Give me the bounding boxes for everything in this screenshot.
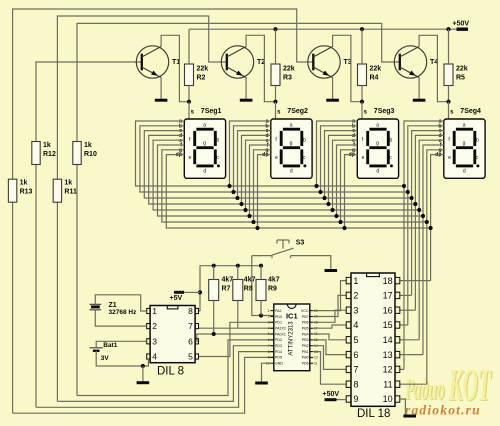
svg-text:PB2: PB2 (302, 344, 309, 348)
wire +50V to DIL18 pin9 (337, 399, 347, 401)
svg-text:Радио: Радио (404, 371, 444, 406)
wire T3 collector loop (333, 35, 362, 101)
resistor R5 22k (444, 64, 453, 86)
resistor R8 4k7 (233, 280, 243, 301)
svg-text:8: 8 (188, 306, 193, 316)
svg-text:PB6: PB6 (302, 321, 309, 325)
svg-text:VCC: VCC (301, 309, 309, 313)
op-amp IC1 ATTINY2313 (266, 304, 318, 371)
svg-text:9: 9 (353, 394, 358, 404)
svg-text:g: g (290, 141, 293, 147)
junction dot collector node T4 (446, 100, 450, 104)
svg-text:4k7: 4k7 (244, 277, 256, 284)
junction dots pullup row R7 R8 R9 (212, 264, 216, 268)
wire T1 base from R12 column (36, 62, 142, 407)
svg-text:3: 3 (268, 321, 270, 325)
svg-text:d: d (290, 169, 293, 175)
wire R7 top lead (213, 266, 215, 280)
IC socket DIL 8 (147, 306, 199, 363)
battery Bat1 3V (90, 348, 103, 351)
junction dot collector node T3 (360, 100, 364, 104)
wire R9 bottom lead (260, 301, 262, 316)
resistor R9 4k7 (256, 280, 266, 301)
svg-text:14: 14 (383, 335, 393, 345)
ground T2 emitter (240, 99, 253, 102)
svg-text:d: d (203, 169, 206, 175)
svg-text:13: 13 (383, 350, 393, 360)
svg-text:3V: 3V (101, 355, 110, 362)
wire Z1 bottom to DIL8 pin2 (95, 310, 146, 326)
svg-text:12: 12 (383, 365, 393, 375)
ground S3 (325, 269, 338, 272)
svg-text:R9: R9 (268, 286, 277, 293)
wire ground drop DIL8 (142, 366, 144, 381)
junction dots segment bus at 7Seg4 (402, 184, 406, 188)
svg-text:PD4: PD4 (275, 350, 282, 354)
svg-text:7: 7 (268, 344, 270, 348)
wire top bus 1 from R13 column to T3 base (13, 9, 314, 413)
svg-text:17: 17 (383, 291, 393, 301)
svg-text:7Seg4: 7Seg4 (460, 108, 481, 115)
svg-text:a: a (376, 123, 379, 129)
transistor T2 (221, 46, 253, 78)
wire display 4 common s (448, 102, 450, 119)
svg-text:PB1: PB1 (302, 350, 309, 354)
svg-text:3: 3 (152, 336, 157, 346)
wire T4 emitter to ground (418, 77, 420, 98)
wire T4 collector loop (419, 35, 448, 101)
wire display 2 common s (275, 102, 277, 119)
resistor R12 1k (32, 142, 40, 165)
svg-text:a: a (290, 123, 293, 129)
svg-text:1: 1 (152, 306, 157, 316)
wire +5V to node (184, 291, 200, 293)
svg-text:6: 6 (268, 338, 270, 342)
wire top bus 2 from R11 column to T2 base (57, 16, 226, 401)
wire DIL8 pin5 to PD1 (199, 322, 274, 356)
svg-text:R2: R2 (197, 75, 206, 82)
wire 7Seg4 segment drops down to DIL18 (404, 121, 444, 369)
svg-text:PB7: PB7 (302, 315, 309, 319)
wire display 3 common s (361, 102, 363, 119)
junction dots segment bus at 7Seg2 (227, 184, 231, 188)
svg-text:5: 5 (188, 352, 193, 362)
svg-text:PA1X2: PA1X2 (275, 327, 286, 331)
ground DIL8 battery (137, 381, 150, 384)
svg-text:22k: 22k (283, 66, 295, 73)
svg-text:PD6: PD6 (302, 362, 309, 366)
svg-text:R8: R8 (244, 286, 253, 293)
svg-text:2: 2 (353, 291, 358, 301)
svg-text:PD0: PD0 (275, 315, 282, 319)
svg-text:9: 9 (268, 356, 270, 360)
resistor R13 1k (8, 179, 16, 202)
svg-text:1: 1 (268, 309, 270, 313)
svg-text:Bat1: Bat1 (103, 342, 117, 349)
svg-text:4: 4 (353, 320, 358, 330)
junction dots segment bus at 7Seg3 (314, 184, 318, 188)
svg-text:PD3: PD3 (275, 344, 282, 348)
IC socket DIL 18 (346, 273, 400, 406)
svg-text:5: 5 (353, 335, 358, 345)
pin labels display 2 (262, 119, 269, 159)
junction dot battery ground node (141, 364, 145, 368)
wire PD2 net from R10 column (77, 340, 274, 396)
svg-text:g: g (203, 141, 206, 147)
svg-text:a: a (203, 123, 206, 129)
svg-text:22k: 22k (197, 66, 209, 73)
svg-text:1k: 1k (43, 142, 51, 149)
svg-text:R4: R4 (370, 75, 379, 82)
wire T1 emitter to ground (160, 77, 162, 98)
svg-text:R3: R3 (283, 75, 292, 82)
wire R9 top lead (260, 266, 262, 280)
wire R7 bottom to PA0X1 and DIL8 pin6 (214, 301, 274, 335)
svg-text:d: d (376, 169, 379, 175)
svg-text:1k: 1k (64, 180, 72, 187)
wire R2 top to +50V rail (188, 29, 190, 64)
transistor T1 (136, 46, 168, 78)
svg-text:+5V: +5V (170, 295, 183, 302)
wire R5 bottom to node (448, 86, 450, 102)
svg-text:PB3: PB3 (302, 338, 309, 342)
transistor T3 (308, 46, 340, 78)
wire +50V rail (189, 28, 458, 30)
wire T2 emitter to ground (245, 77, 247, 98)
resistor R2 22k (185, 64, 194, 86)
wire S3 to PD0 and R9 bottom (252, 256, 274, 316)
power symbol +50V top right (457, 28, 469, 31)
svg-text:15: 15 (383, 320, 393, 330)
svg-text:12: 12 (314, 356, 318, 360)
svg-text:1: 1 (353, 276, 358, 286)
wire Z1 top to DIL8 pin1 (95, 295, 146, 311)
svg-text:+50V: +50V (453, 21, 470, 28)
svg-text:R12: R12 (43, 151, 56, 158)
wire 7Seg2 segment drops (230, 121, 271, 186)
watermark Radio KOT (404, 359, 493, 411)
svg-text:R13: R13 (20, 189, 33, 196)
wire Bat1 minus to DIL8 pin4 and ground (96, 351, 148, 366)
svg-text:7Seg1: 7Seg1 (201, 108, 222, 115)
svg-text:8: 8 (268, 350, 270, 354)
resistor R3 22k (271, 64, 280, 86)
svg-text:S3: S3 (296, 240, 305, 247)
junction dot +5V tap (198, 290, 202, 294)
svg-text:e: e (362, 155, 365, 161)
ground T4 emitter (413, 99, 426, 102)
resistor R7 4k7 (209, 280, 219, 301)
svg-text:R5: R5 (456, 75, 465, 82)
power symbol +50V bottom (325, 398, 337, 401)
svg-text:g: g (376, 141, 379, 147)
wire R3 top to +50V rail (275, 29, 277, 64)
svg-text:IC1: IC1 (286, 311, 298, 320)
wire R4 top to +50V rail (361, 29, 363, 64)
svg-text:11: 11 (383, 379, 392, 389)
wire R2 bottom to node (188, 86, 190, 102)
junction dot R9 bottom PD0 (259, 313, 263, 317)
power symbol +5V (174, 291, 184, 294)
wire R8 top lead (237, 266, 239, 280)
svg-text:7Seg2: 7Seg2 (287, 108, 308, 115)
svg-text:4: 4 (152, 352, 157, 362)
svg-text:1k: 1k (84, 142, 92, 149)
wires IC1 PB pins to DIL18 pins 1-8 (313, 281, 346, 311)
wire T2 collector loop (246, 35, 275, 101)
svg-text:PD5: PD5 (275, 356, 282, 360)
ground IC1 (255, 382, 268, 385)
svg-text:PA2: PA2 (275, 309, 282, 313)
svg-text:R7: R7 (222, 286, 231, 293)
svg-text:3: 3 (353, 305, 358, 315)
junction dot collector node T2 (273, 100, 277, 104)
svg-text:4k7: 4k7 (268, 277, 280, 284)
svg-text:22k: 22k (456, 66, 468, 73)
wire IC1 GND to ground (262, 363, 271, 381)
wire 7Seg1 segment staircase and bus lines (136, 121, 405, 186)
svg-text:+50V: +50V (323, 391, 340, 398)
svg-text:11: 11 (314, 361, 318, 365)
wire PD3 net from R11 column (57, 346, 273, 402)
svg-text:22k: 22k (370, 66, 382, 73)
seven segment display 7Seg3 (357, 119, 398, 178)
svg-text:DIL 18: DIL 18 (357, 408, 390, 420)
svg-text:e: e (275, 155, 278, 161)
svg-text:7Seg3: 7Seg3 (374, 108, 395, 115)
svg-text:2: 2 (268, 315, 270, 319)
svg-text:8: 8 (353, 379, 358, 389)
junction dot collector node T1 (187, 100, 191, 104)
svg-text:32768 Hz: 32768 Hz (109, 309, 138, 316)
junction dots +50V rail at R3 R4 R5 (273, 27, 277, 31)
svg-text:b: b (303, 137, 306, 143)
svg-text:R10: R10 (84, 151, 97, 158)
wire DIL18 pin10 to ground (400, 399, 406, 415)
wire R5 top to +50V rail (448, 29, 450, 64)
svg-text:16: 16 (383, 305, 393, 315)
seven segment display 7Seg2 (271, 119, 312, 178)
wire R8 bottom to PA1X2 and DIL8 pin7 (238, 301, 274, 329)
svg-text:10: 10 (383, 394, 393, 404)
svg-text:d: d (463, 169, 466, 175)
seven segment display 7Seg4 (444, 119, 485, 178)
svg-text:b: b (217, 137, 220, 143)
resistor R10 1k (73, 142, 81, 165)
wire +5V pullup row to DIL8 pin8 (200, 266, 262, 311)
svg-text:e: e (448, 155, 451, 161)
svg-text:b: b (476, 137, 479, 143)
svg-text:1k: 1k (20, 180, 28, 187)
transistor T4 (394, 46, 426, 78)
pin labels display 4 (435, 119, 442, 159)
crystal Z1 32768 Hz (90, 304, 102, 310)
ground T1 emitter (155, 99, 168, 102)
wire PD4 net from R12 column (36, 352, 274, 408)
svg-text:radiokot.ru: radiokot.ru (405, 403, 481, 418)
wire display 1 common s (188, 102, 190, 119)
pin labels display 1 (176, 119, 183, 159)
svg-text:R11: R11 (64, 189, 77, 196)
svg-text:5: 5 (268, 332, 270, 336)
svg-text:a: a (463, 123, 466, 129)
svg-text:b: b (390, 137, 393, 143)
svg-text:PA0X1: PA0X1 (275, 332, 286, 336)
svg-text:7: 7 (353, 365, 358, 375)
svg-text:g: g (463, 141, 466, 147)
wire T1 collector loop (161, 35, 189, 101)
resistor R11 1k (53, 179, 61, 202)
svg-text:7: 7 (188, 321, 193, 331)
svg-text:6: 6 (353, 350, 358, 360)
svg-text:PB4: PB4 (302, 332, 309, 336)
svg-text:ATTINY2313: ATTINY2313 (289, 321, 295, 356)
wire PD5 net from R13 column (13, 357, 274, 413)
pin labels display 3 (349, 119, 356, 159)
wire T3 emitter to ground (332, 77, 334, 98)
wire R4 bottom to node (361, 86, 363, 102)
wire 7Seg3 segment drops (317, 121, 358, 186)
svg-text:e: e (189, 155, 192, 161)
wire R3 bottom to node (275, 86, 277, 102)
wire top bus 3 from R10 column to T4 base (77, 23, 400, 395)
svg-text:6: 6 (188, 336, 193, 346)
svg-text:PB0: PB0 (302, 356, 309, 360)
svg-text:PD1: PD1 (275, 321, 282, 325)
svg-text:4: 4 (268, 326, 270, 330)
svg-text:4k7: 4k7 (222, 277, 234, 284)
seven segment display 7Seg1 (184, 119, 225, 178)
svg-text:18: 18 (383, 276, 393, 286)
svg-text:DIL 8: DIL 8 (157, 366, 184, 378)
resistor R4 22k (358, 64, 367, 86)
svg-text:2: 2 (152, 321, 157, 331)
junction dot R7 bottom (212, 332, 216, 336)
ground DIL18 pin10 (403, 415, 416, 418)
ground T3 emitter (326, 99, 339, 102)
svg-text:GND: GND (275, 362, 283, 366)
switch S3 (252, 240, 331, 269)
svg-text:PD2: PD2 (275, 338, 282, 342)
svg-text:PB5: PB5 (302, 327, 309, 331)
wire Bat1 plus to DIL8 pin3 (96, 341, 147, 348)
